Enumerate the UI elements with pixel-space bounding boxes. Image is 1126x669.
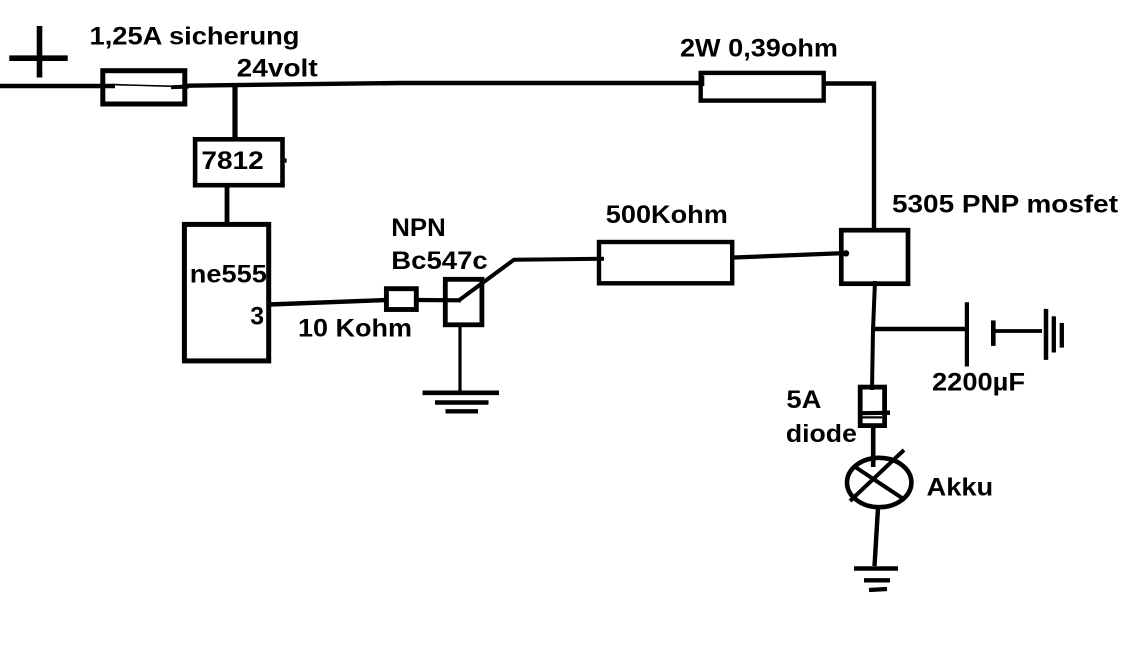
- resistor R2 500Kohm: [599, 242, 732, 283]
- wire lamp to ground: [875, 508, 879, 566]
- gate blob: [843, 250, 849, 256]
- regulator U2 7812: [195, 139, 286, 185]
- capacitor C1 2200uF: [967, 302, 993, 366]
- ground (capacitor, rotated): [1046, 309, 1062, 360]
- svg-text:NPN: NPN: [391, 214, 446, 242]
- svg-text:diode: diode: [786, 420, 857, 448]
- battery plus symbol: [9, 26, 67, 78]
- wire collector diagonal to 500K: [458, 259, 604, 301]
- wire branch to capacitor: [871, 327, 965, 331]
- svg-text:1,25A sicherung: 1,25A sicherung: [90, 22, 300, 50]
- lamp Akku: [847, 450, 911, 507]
- svg-text:7812: 7812: [201, 147, 263, 175]
- svg-text:5A: 5A: [786, 386, 821, 414]
- mosfet Q2 5305 PNP: [841, 230, 908, 284]
- svg-text:ne555: ne555: [190, 261, 267, 289]
- svg-text:Bc547c: Bc547c: [391, 247, 488, 275]
- diode D1 5A: [860, 387, 884, 426]
- svg-text:3: 3: [250, 303, 264, 331]
- resistor R3 2W 0,39ohm: [701, 73, 824, 101]
- fuse F1 1,25A sicherung: [103, 71, 189, 104]
- svg-text:2200µF: 2200µF: [932, 368, 1025, 396]
- wire diode to lamp: [871, 425, 876, 467]
- wire capacitor to ground: [995, 329, 1042, 333]
- timer U1 ne555: [184, 224, 268, 361]
- svg-text:5305 PNP mosfet: 5305 PNP mosfet: [892, 190, 1119, 218]
- wire mosfet drain down: [872, 281, 875, 390]
- svg-text:24volt: 24volt: [237, 54, 319, 82]
- transistor Q1 NPN Bc547c: [445, 279, 482, 325]
- wire R2 to mosfet gate: [734, 253, 847, 258]
- wire R3 to mosfet source: [823, 81, 876, 85]
- ground (lamp): [854, 569, 898, 591]
- node 24volt junction: [232, 83, 237, 139]
- resistor R1 10 Kohm: [386, 289, 416, 310]
- svg-text:500Kohm: 500Kohm: [606, 201, 728, 229]
- wire left input: [0, 84, 115, 88]
- wire 7812 to ne555: [225, 187, 230, 223]
- wire emitter to ground: [458, 323, 461, 392]
- svg-text:10 Kohm: 10 Kohm: [298, 314, 412, 342]
- svg-text:2W 0,39ohm: 2W 0,39ohm: [680, 34, 838, 62]
- wire fuse to 2W resistor: [187, 83, 700, 86]
- wire R1 to Q1 base: [417, 298, 461, 302]
- wire pin3 to R 10K: [269, 300, 386, 305]
- ground (NPN emitter): [423, 393, 500, 412]
- svg-text:Akku: Akku: [927, 473, 994, 501]
